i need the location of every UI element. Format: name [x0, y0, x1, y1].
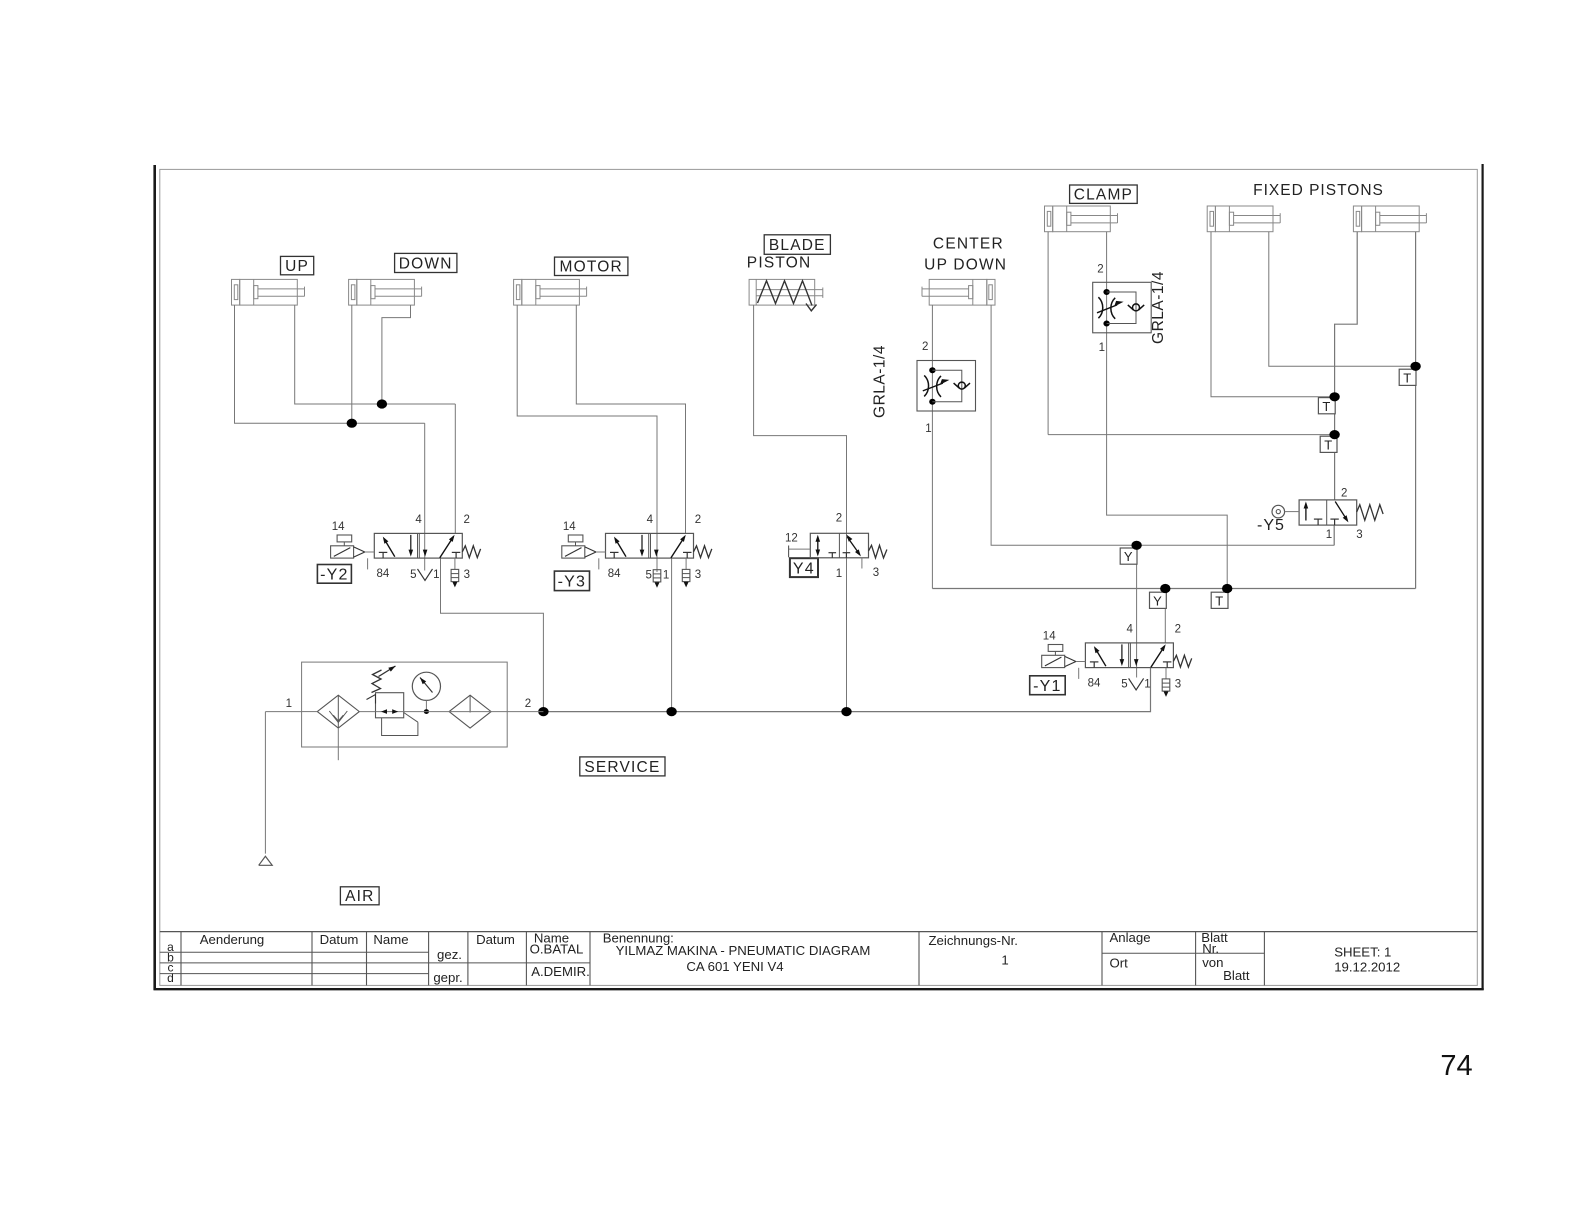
svg-text:2: 2 — [463, 514, 469, 526]
svg-text:A.DEMIR.: A.DEMIR. — [531, 964, 590, 979]
svg-text:2: 2 — [695, 514, 701, 526]
svg-text:84: 84 — [1088, 677, 1101, 689]
svg-text:AIR: AIR — [345, 888, 374, 905]
svg-text:Datum: Datum — [476, 932, 515, 947]
svg-text:19.12.2012: 19.12.2012 — [1334, 959, 1400, 974]
svg-text:Ort: Ort — [1110, 955, 1129, 970]
svg-text:FIXED PISTONS: FIXED PISTONS — [1253, 182, 1384, 199]
svg-text:1: 1 — [1144, 679, 1150, 691]
svg-text:Blatt: Blatt — [1223, 968, 1250, 983]
svg-text:Y: Y — [1153, 593, 1162, 608]
svg-text:O.BATAL: O.BATAL — [530, 942, 584, 957]
svg-text:1: 1 — [663, 569, 669, 581]
svg-text:1: 1 — [925, 423, 931, 435]
svg-text:14: 14 — [1043, 630, 1056, 642]
svg-text:GRLA-1/4: GRLA-1/4 — [872, 345, 889, 418]
svg-text:2: 2 — [525, 698, 531, 710]
svg-text:84: 84 — [377, 568, 390, 580]
svg-text:1: 1 — [1001, 953, 1008, 968]
svg-text:12: 12 — [785, 533, 798, 545]
svg-text:1: 1 — [433, 569, 439, 581]
svg-text:T: T — [1215, 593, 1223, 608]
svg-text:Datum: Datum — [320, 932, 359, 947]
svg-text:von: von — [1202, 955, 1223, 970]
svg-text:2: 2 — [1097, 264, 1103, 276]
svg-text:-Y5: -Y5 — [1257, 517, 1285, 534]
svg-text:1: 1 — [286, 698, 292, 710]
svg-text:1: 1 — [1326, 529, 1332, 541]
svg-text:3: 3 — [695, 569, 701, 581]
svg-text:DOWN: DOWN — [399, 255, 453, 272]
svg-text:14: 14 — [563, 521, 576, 533]
svg-text:T: T — [1403, 370, 1411, 385]
svg-text:5: 5 — [410, 569, 416, 581]
svg-text:-Y3: -Y3 — [558, 574, 587, 591]
svg-text:Y: Y — [1124, 549, 1133, 564]
svg-text:CA 601 YENI V4: CA 601 YENI V4 — [686, 959, 783, 974]
svg-text:SHEET: 1: SHEET: 1 — [1334, 945, 1391, 960]
svg-text:74: 74 — [1440, 1050, 1472, 1082]
svg-text:5: 5 — [645, 569, 651, 581]
svg-text:-Y1: -Y1 — [1033, 678, 1062, 695]
svg-text:gepr.: gepr. — [433, 970, 462, 985]
svg-text:-Y2: -Y2 — [320, 567, 349, 584]
svg-text:Anlage: Anlage — [1110, 930, 1151, 945]
svg-text:gez.: gez. — [437, 947, 462, 962]
svg-text:14: 14 — [332, 521, 345, 533]
svg-text:Aenderung: Aenderung — [200, 932, 265, 947]
svg-text:UP: UP — [285, 258, 309, 275]
svg-text:4: 4 — [1126, 623, 1133, 635]
svg-text:1: 1 — [836, 568, 842, 580]
svg-text:2: 2 — [1175, 623, 1181, 635]
svg-text:4: 4 — [415, 514, 422, 526]
svg-text:3: 3 — [873, 567, 879, 579]
svg-text:CLAMP: CLAMP — [1074, 187, 1133, 204]
svg-text:3: 3 — [464, 569, 470, 581]
svg-text:d: d — [167, 971, 174, 985]
svg-text:2: 2 — [922, 341, 928, 353]
svg-text:3: 3 — [1356, 529, 1362, 541]
svg-text:YILMAZ MAKINA - PNEUMATIC DIA: YILMAZ MAKINA - PNEUMATIC DIAGRAM — [616, 943, 871, 958]
svg-text:Nr.: Nr. — [1202, 941, 1219, 956]
svg-text:T: T — [1324, 437, 1332, 452]
svg-text:Y4: Y4 — [793, 560, 815, 577]
svg-text:UP DOWN: UP DOWN — [924, 257, 1007, 274]
svg-text:Name: Name — [373, 932, 408, 947]
svg-text:Zeichnungs-Nr.: Zeichnungs-Nr. — [929, 933, 1018, 948]
svg-text:4: 4 — [647, 514, 654, 526]
svg-text:2: 2 — [1341, 488, 1347, 500]
svg-text:PISTON: PISTON — [747, 254, 812, 271]
svg-text:3: 3 — [1175, 679, 1181, 691]
svg-text:SERVICE: SERVICE — [584, 759, 660, 776]
svg-text:BLADE: BLADE — [769, 237, 826, 254]
svg-text:84: 84 — [608, 568, 621, 580]
svg-text:CENTER: CENTER — [933, 235, 1004, 252]
svg-text:T: T — [1322, 399, 1330, 414]
svg-text:GRLA-1/4: GRLA-1/4 — [1150, 271, 1167, 344]
svg-text:5: 5 — [1121, 679, 1127, 691]
svg-text:2: 2 — [836, 513, 842, 525]
svg-text:1: 1 — [1099, 342, 1105, 354]
svg-text:MOTOR: MOTOR — [559, 259, 622, 276]
